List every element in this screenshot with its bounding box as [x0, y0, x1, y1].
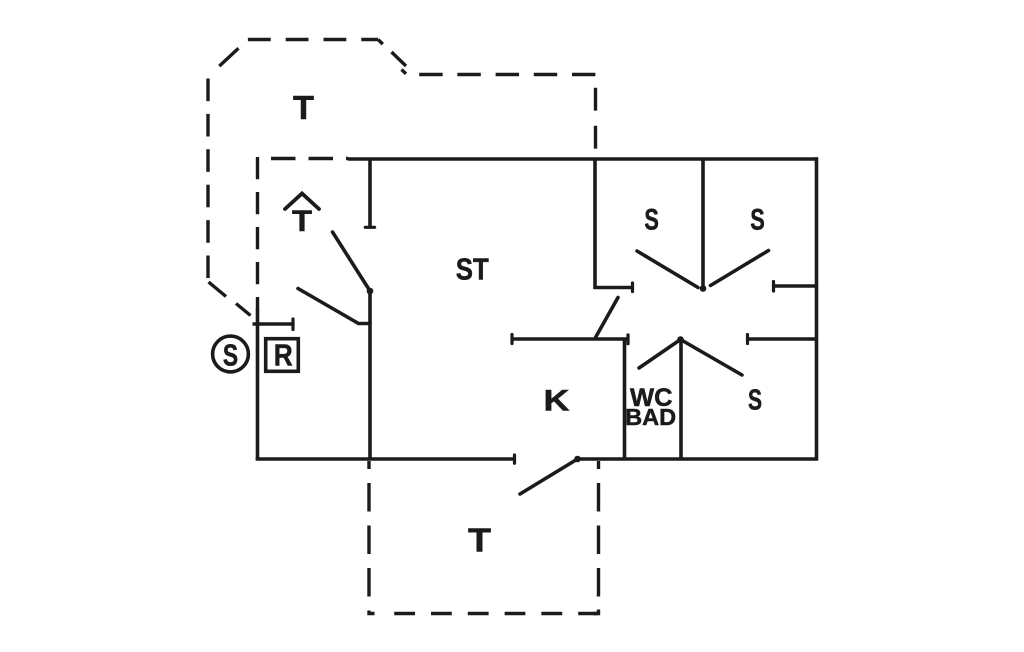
svg-text:R: R — [274, 339, 293, 373]
svg-text:S: S — [748, 384, 762, 416]
entry door sill — [253, 322, 294, 326]
wall: kitchen top — [512, 337, 628, 341]
circle S symbol — [213, 336, 249, 372]
svg-text:T: T — [468, 523, 492, 560]
hinge dot: terrace door — [574, 456, 581, 463]
bottom terrace right tick — [597, 461, 600, 469]
bottom terrace SW corner — [369, 611, 375, 614]
wall: hall/bedroom3 stub — [748, 337, 818, 341]
door leaf: terrace door — [520, 459, 578, 494]
hinge dot: WC/bedroom3 doors — [677, 336, 684, 343]
dashed terrace SW corner dashes — [209, 282, 227, 297]
wall: kitchen/WC — [623, 339, 627, 461]
wall: entry/ST lower — [368, 291, 372, 461]
svg-text:T: T — [292, 205, 312, 238]
opening tick: bottom wall end — [513, 455, 516, 463]
opening tick: kitchen wall right end — [626, 335, 629, 344]
opening tick: kitchen wall left end — [510, 335, 513, 344]
door leaf: entry to ST — [333, 232, 371, 291]
bottom terrace bottom dashed edge — [394, 612, 598, 615]
dashed terrace left vertical — [206, 79, 209, 279]
bottom terrace left dashed edge — [367, 483, 370, 610]
opening tick: hall stub end — [631, 283, 634, 292]
square R symbol — [266, 339, 299, 372]
hinge dot: bedroom doors — [700, 285, 707, 292]
svg-text:K: K — [544, 384, 571, 417]
hinge dot: entry door — [367, 288, 374, 295]
dashed entry porch horizontal — [271, 157, 348, 160]
wall: ST/bedroom1 — [593, 158, 597, 290]
wall: hall stub below bedroom1 — [594, 286, 633, 290]
door leaf: WC/BAD — [639, 340, 681, 369]
bottom terrace SE corner — [594, 610, 599, 614]
dashed terrace NE corner nubs — [378, 40, 383, 45]
dashed terrace upper horizontal — [414, 73, 595, 76]
wall: house bottom, left of terrace door — [256, 457, 516, 461]
dashed terrace top edge — [248, 38, 378, 41]
svg-text:S: S — [750, 203, 765, 236]
dashed entry porch vertical — [256, 157, 259, 309]
svg-text:S: S — [223, 337, 238, 372]
svg-text:BAD: BAD — [625, 404, 676, 430]
bottom terrace right dashed edge — [597, 483, 600, 609]
door leaf: entrance door — [298, 289, 370, 324]
wall: hall/bedroom2 stub — [774, 284, 818, 288]
svg-text:ST: ST — [456, 252, 489, 287]
wall: house bottom, right of terrace door — [579, 457, 819, 461]
entrance chevron symbol — [285, 194, 319, 210]
wall: bedroom1/bedroom2 — [701, 158, 705, 289]
wall: house left — [256, 309, 260, 461]
door leaf: kitchen — [596, 298, 619, 338]
door leaf: bedroom3 — [681, 340, 743, 376]
svg-text:T: T — [293, 89, 314, 126]
dashed terrace NE corner dash — [392, 52, 407, 66]
dashed terrace right vertical — [594, 88, 597, 157]
opening tick: bedroom2 stub end — [772, 282, 775, 292]
door leaf: bedroom1 — [637, 251, 698, 288]
wall: house top — [348, 157, 818, 161]
opening tick: sill end — [291, 319, 294, 330]
wall: entry/ST upper — [368, 158, 372, 228]
wall: WC/bedroom3 — [679, 339, 683, 461]
svg-text:S: S — [644, 203, 659, 236]
door leaf: bedroom2 — [711, 251, 769, 286]
dashed terrace NW corner dash — [219, 48, 238, 66]
opening tick: entry/ST wall end — [365, 226, 374, 229]
bottom terrace left tick — [367, 461, 370, 469]
wall: house right — [815, 157, 819, 460]
opening tick: bedroom3 stub end — [746, 335, 749, 344]
